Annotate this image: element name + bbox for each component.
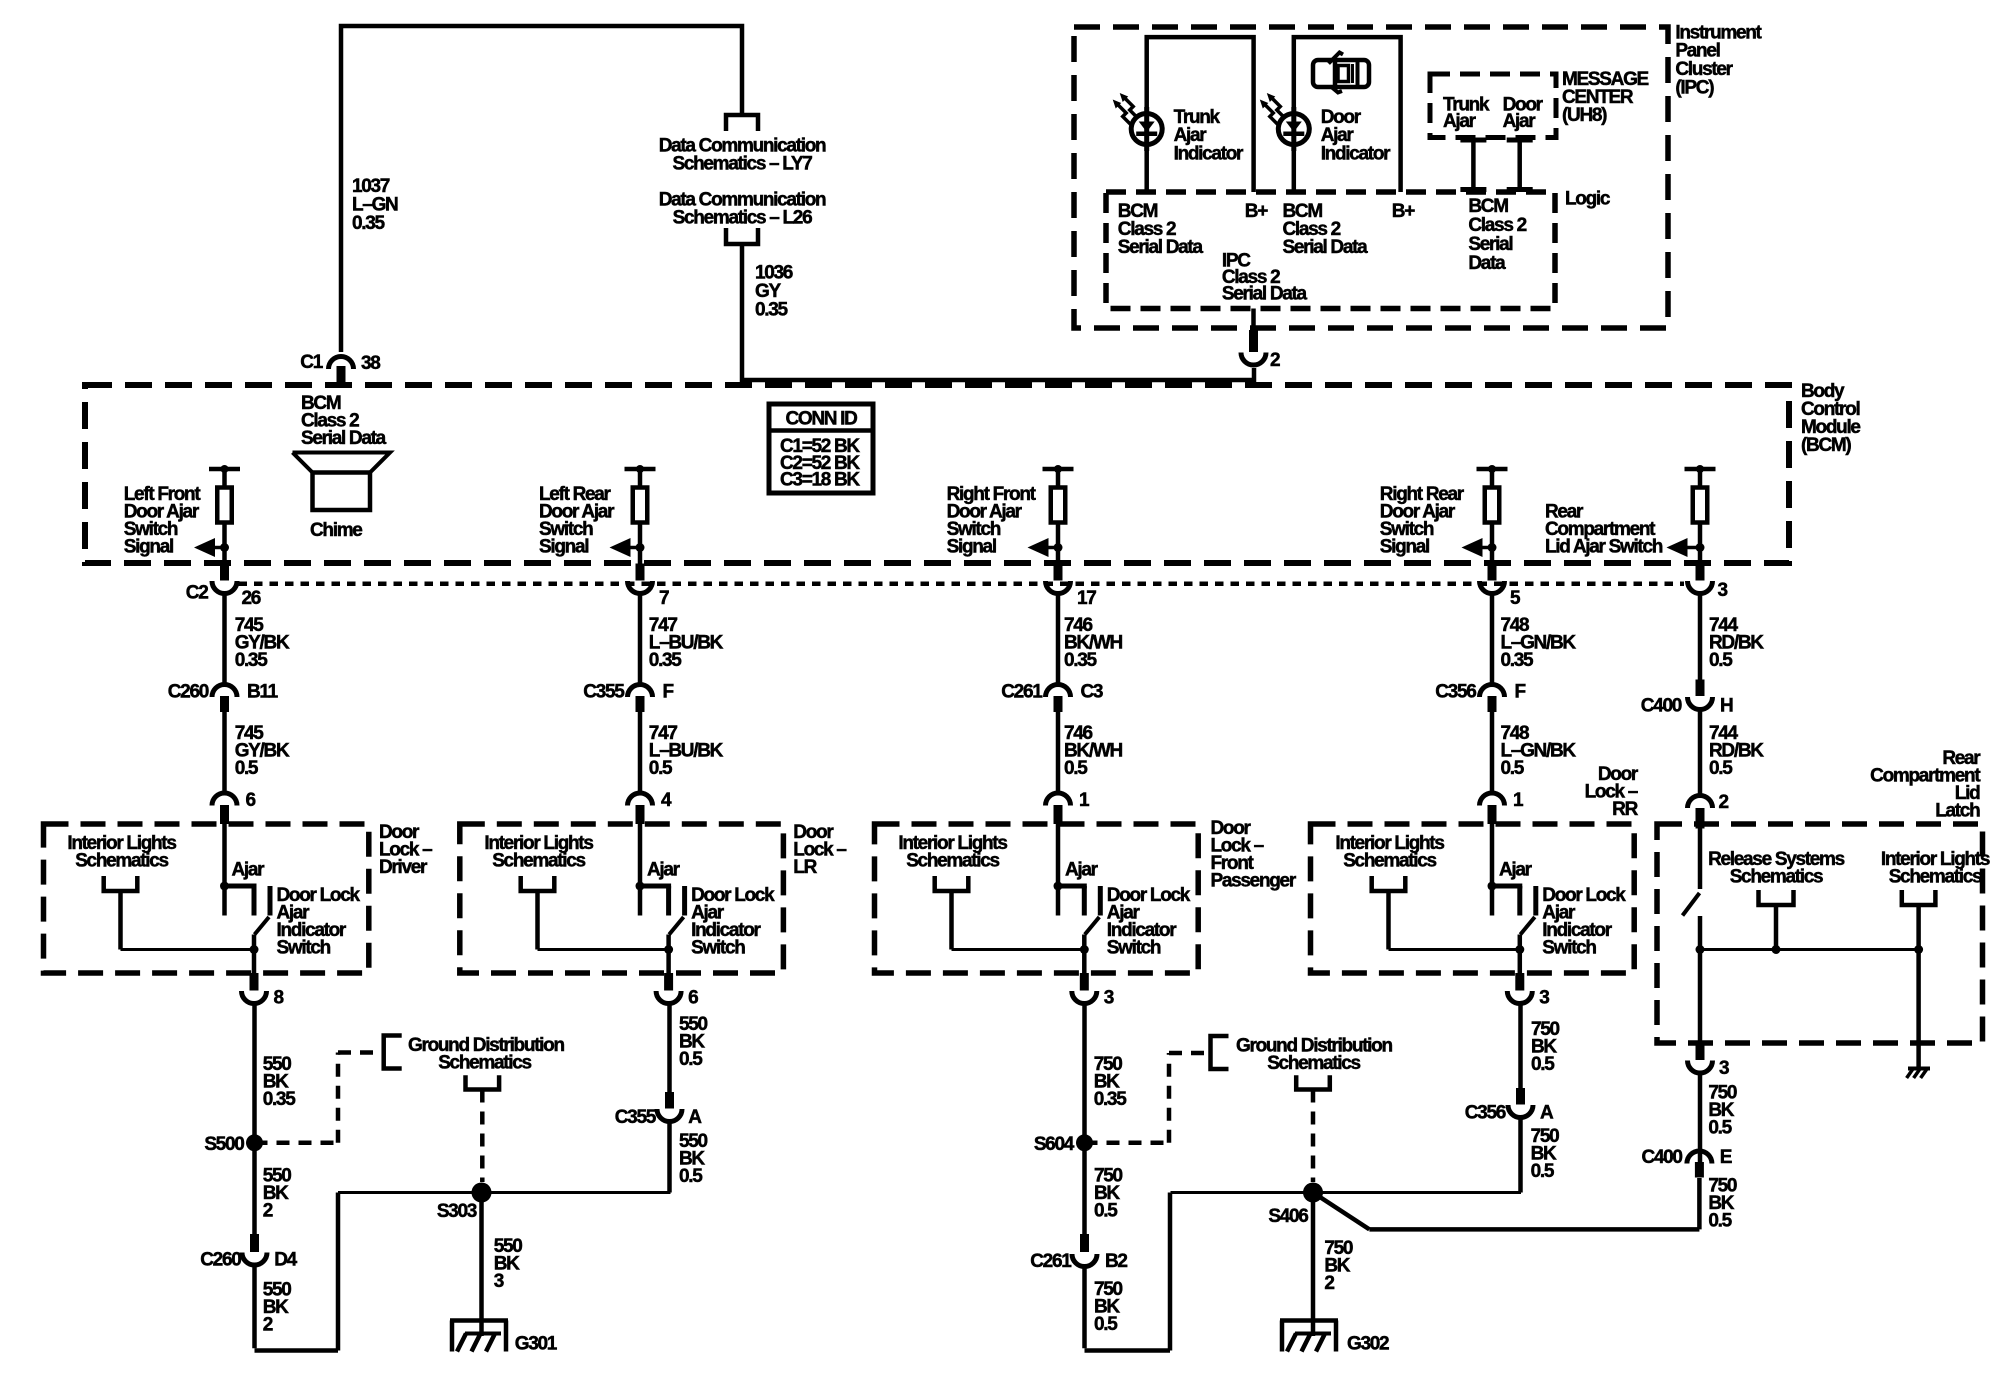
svg-text:H: H	[1720, 696, 1733, 717]
svg-text:Ajar: Ajar	[1443, 111, 1477, 132]
svg-text:C3: C3	[1081, 682, 1103, 703]
svg-text:0.5: 0.5	[649, 758, 673, 779]
svg-text:(BCM): (BCM)	[1801, 435, 1851, 456]
svg-text:Ajar: Ajar	[232, 860, 266, 881]
svg-text:G302: G302	[1347, 1334, 1389, 1355]
svg-text:C2: C2	[186, 583, 208, 604]
svg-text:Schematics: Schematics	[1730, 867, 1823, 888]
svg-text:0.35: 0.35	[649, 650, 683, 671]
svg-text:Serial: Serial	[1468, 234, 1512, 255]
svg-text:C261: C261	[1001, 682, 1043, 703]
svg-text:0.5: 0.5	[679, 1049, 703, 1070]
svg-text:Serial Data: Serial Data	[1222, 284, 1308, 305]
svg-text:CONN ID: CONN ID	[785, 409, 857, 430]
svg-text:Serial Data: Serial Data	[1118, 237, 1204, 258]
svg-text:0.5: 0.5	[235, 758, 259, 779]
svg-text:Schematics: Schematics	[1267, 1053, 1360, 1074]
svg-text:C355: C355	[615, 1107, 657, 1128]
svg-text:Schematics: Schematics	[75, 851, 168, 872]
svg-text:C356: C356	[1435, 682, 1476, 703]
svg-text:Serial Data: Serial Data	[1283, 237, 1369, 258]
svg-text:Schematics: Schematics	[1889, 867, 1982, 888]
svg-text:C400: C400	[1641, 1147, 1682, 1168]
svg-text:38: 38	[361, 353, 380, 374]
svg-text:17: 17	[1077, 588, 1096, 609]
svg-text:0.35: 0.35	[235, 650, 269, 671]
svg-text:Switch: Switch	[691, 938, 745, 959]
svg-text:3: 3	[1539, 988, 1549, 1009]
svg-text:Switch: Switch	[277, 938, 331, 959]
svg-text:BCM: BCM	[1468, 196, 1508, 217]
svg-text:A: A	[1540, 1103, 1554, 1124]
svg-text:F: F	[663, 682, 674, 703]
svg-text:C356: C356	[1465, 1103, 1506, 1124]
svg-text:0.5: 0.5	[1709, 650, 1733, 671]
svg-text:Ajar: Ajar	[1499, 860, 1533, 881]
svg-text:Serial Data: Serial Data	[301, 428, 387, 449]
svg-text:0.5: 0.5	[1094, 1314, 1118, 1335]
svg-text:B+: B+	[1245, 201, 1268, 222]
svg-text:0.35: 0.35	[755, 300, 789, 321]
svg-text:2: 2	[1270, 350, 1280, 371]
svg-text:Schematics – LY7: Schematics – LY7	[672, 154, 812, 175]
svg-text:6: 6	[688, 988, 698, 1009]
svg-text:Ajar: Ajar	[647, 860, 681, 881]
svg-text:0.5: 0.5	[1531, 1054, 1555, 1075]
svg-text:C400: C400	[1641, 696, 1682, 717]
svg-text:0.5: 0.5	[679, 1166, 703, 1187]
svg-text:2: 2	[1324, 1273, 1334, 1294]
svg-text:0.35: 0.35	[263, 1089, 297, 1110]
svg-text:3: 3	[1719, 1058, 1729, 1079]
svg-text:0.35: 0.35	[352, 213, 386, 234]
svg-text:Indicator: Indicator	[1321, 143, 1391, 164]
svg-text:RR: RR	[1612, 799, 1638, 820]
svg-text:(UH8): (UH8)	[1562, 105, 1607, 126]
svg-text:6: 6	[246, 790, 256, 811]
svg-text:8: 8	[274, 988, 284, 1009]
svg-text:Logic: Logic	[1565, 188, 1611, 209]
svg-text:3: 3	[494, 1271, 504, 1292]
svg-text:0.5: 0.5	[1708, 1118, 1732, 1139]
svg-text:Chime: Chime	[310, 520, 362, 541]
svg-text:Switch: Switch	[1107, 938, 1161, 959]
svg-text:Switch: Switch	[1542, 938, 1596, 959]
svg-text:7: 7	[659, 588, 669, 609]
svg-text:Signal: Signal	[539, 537, 588, 558]
svg-text:F: F	[1515, 682, 1526, 703]
svg-text:Signal: Signal	[947, 537, 996, 558]
svg-text:3: 3	[1718, 580, 1728, 601]
svg-text:S500: S500	[204, 1134, 244, 1155]
svg-text:0.5: 0.5	[1708, 1211, 1732, 1232]
svg-text:C260: C260	[168, 682, 209, 703]
svg-text:C1: C1	[300, 352, 323, 373]
svg-text:A: A	[688, 1107, 702, 1128]
svg-text:S406: S406	[1268, 1206, 1308, 1227]
svg-text:Lid Ajar Switch: Lid Ajar Switch	[1545, 537, 1663, 558]
svg-text:0.5: 0.5	[1094, 1201, 1118, 1222]
svg-text:C261: C261	[1030, 1251, 1072, 1272]
svg-text:Latch: Latch	[1935, 801, 1980, 822]
svg-text:0.35: 0.35	[1064, 650, 1098, 671]
svg-text:0.5: 0.5	[1709, 758, 1733, 779]
svg-text:Signal: Signal	[124, 537, 173, 558]
svg-text:G301: G301	[515, 1334, 558, 1355]
svg-text:S303: S303	[437, 1201, 477, 1222]
svg-text:Schematics: Schematics	[438, 1053, 531, 1074]
svg-text:B11: B11	[247, 682, 279, 703]
svg-text:C3=18 BK: C3=18 BK	[780, 470, 860, 491]
svg-text:0.35: 0.35	[1094, 1089, 1128, 1110]
svg-text:LR: LR	[793, 857, 817, 878]
svg-text:Signal: Signal	[1380, 537, 1429, 558]
svg-text:B2: B2	[1105, 1251, 1127, 1272]
svg-text:S604: S604	[1034, 1134, 1075, 1155]
svg-text:C260: C260	[200, 1250, 241, 1271]
svg-text:Ajar: Ajar	[1503, 111, 1537, 132]
svg-text:0.35: 0.35	[1501, 650, 1535, 671]
svg-text:C355: C355	[583, 682, 625, 703]
svg-text:D4: D4	[274, 1250, 297, 1271]
svg-text:3: 3	[1104, 988, 1114, 1009]
svg-text:(IPC): (IPC)	[1675, 77, 1714, 98]
svg-text:Class 2: Class 2	[1468, 215, 1526, 236]
svg-text:Passenger: Passenger	[1211, 871, 1297, 892]
svg-text:0.5: 0.5	[1064, 758, 1088, 779]
svg-text:Schematics: Schematics	[492, 851, 585, 872]
svg-text:0.5: 0.5	[1531, 1161, 1555, 1182]
svg-text:Schematics: Schematics	[906, 851, 999, 872]
svg-text:Driver: Driver	[379, 857, 428, 878]
svg-text:26: 26	[242, 588, 261, 609]
svg-text:B+: B+	[1392, 201, 1415, 222]
svg-text:2: 2	[1719, 792, 1729, 813]
svg-text:2: 2	[263, 1201, 273, 1222]
svg-text:Data: Data	[1468, 253, 1506, 274]
svg-text:E: E	[1720, 1147, 1732, 1168]
svg-text:Schematics: Schematics	[1343, 851, 1436, 872]
svg-text:Ajar: Ajar	[1065, 860, 1099, 881]
svg-text:0.5: 0.5	[1501, 758, 1525, 779]
svg-text:Indicator: Indicator	[1174, 143, 1244, 164]
svg-text:Schematics – L26: Schematics – L26	[673, 208, 812, 229]
svg-text:2: 2	[263, 1315, 273, 1336]
